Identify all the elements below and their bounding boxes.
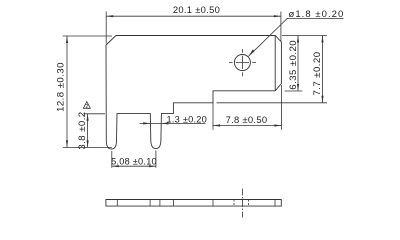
revision triangle — [83, 102, 90, 110]
bottom view step1 line — [173, 200, 175, 207]
svg-text:12.8 ±0.30: 12.8 ±0.30 — [56, 62, 67, 112]
svg-text:5.08 ±0.10: 5.08 ±0.10 — [111, 156, 157, 166]
dimension 7.7±0.20 — [217, 36, 328, 103]
svg-text:2: 2 — [85, 104, 88, 110]
dimension 1.3±0.20 prong width — [140, 114, 208, 124]
bottom view hole centerline — [241, 189, 243, 218]
hole centerline vertical — [241, 49, 243, 76]
bottom view chamfer line — [274, 200, 276, 207]
svg-text:20.1 ±0.50: 20.1 ±0.50 — [173, 4, 220, 15]
dimension 7.8±0.50 — [213, 85, 281, 130]
dimension 20.1±0.50 — [106, 4, 281, 43]
svg-text:3.8 ±0.2: 3.8 ±0.2 — [77, 111, 88, 149]
hole — [234, 55, 250, 71]
bottom view step2 line — [212, 200, 214, 207]
bend line at tab end — [274, 36, 276, 91]
bottom view prong2 right edge line — [159, 200, 161, 207]
bottom view hole hidden line right — [247, 200, 249, 207]
label ∅1.8±0.20 with leader — [248, 9, 344, 57]
svg-text:7.7 ±0.20: 7.7 ±0.20 — [312, 52, 323, 96]
dimension 3.8±0.2 — [77, 111, 105, 149]
svg-text:6.35 ±0.20: 6.35 ±0.20 — [288, 40, 299, 90]
bottom view prong2 left edge line — [149, 200, 151, 207]
hole centerline horizontal — [229, 62, 256, 64]
svg-text:1.3 ±0.20: 1.3 ±0.20 — [167, 114, 208, 124]
part outline main view — [106, 36, 281, 150]
bottom view outline — [106, 200, 281, 207]
bottom view hole hidden line left — [233, 200, 235, 207]
dimension 12.8±0.30 — [56, 36, 112, 147]
dimension 5.08±0.10 prong pitch — [111, 151, 157, 168]
dimension 6.35±0.20 — [282, 36, 327, 92]
svg-text:ø1.8 ±0.20: ø1.8 ±0.20 — [289, 9, 345, 20]
svg-text:7.8 ±0.50: 7.8 ±0.50 — [226, 114, 268, 125]
bottom view prong1 edge line — [116, 200, 118, 207]
